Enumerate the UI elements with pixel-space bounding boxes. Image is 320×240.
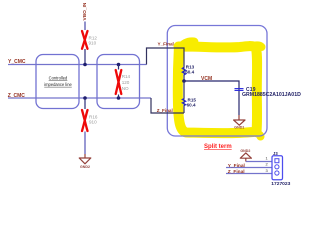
- resistor R13 (zigzag): [182, 67, 185, 75]
- wire stub from VBO_IN down to R12: [84, 22, 86, 31]
- wire Z_CMC horizontal: [8, 97, 151, 99]
- svg-text:J3: J3: [273, 151, 278, 156]
- controlled impedance box 1: [36, 55, 79, 109]
- wire Z_Final to J3 pin3: [226, 173, 272, 175]
- resistor R15 (zigzag): [182, 99, 185, 106]
- R12 value labels: [89, 36, 98, 46]
- junction R14 top: [117, 63, 121, 67]
- wire gnd to J3 pin1: [246, 161, 272, 163]
- wire R15 down to Z branch: [183, 106, 185, 114]
- wire R12 to Y wire: [84, 49, 86, 65]
- junction R14 bottom: [117, 96, 121, 100]
- wire Y branch up/right to R13: [147, 48, 185, 67]
- label: Controlled impedance line: [44, 76, 72, 87]
- svg-text:60.4: 60.4: [187, 102, 196, 107]
- svg-text:GND1: GND1: [234, 126, 244, 130]
- R13 labels: [185, 65, 194, 75]
- R15 labels: [187, 97, 197, 107]
- resistor R16 (red X, DNI): [82, 110, 88, 131]
- ground GND1 (under C19): [234, 120, 245, 125]
- R16 value labels: [89, 114, 98, 124]
- svg-text:3: 3: [265, 168, 268, 173]
- svg-text:GND2: GND2: [240, 149, 250, 153]
- svg-text:VBO_IN: VBO_IN: [82, 2, 88, 20]
- svg-text:Z_Final: Z_Final: [157, 108, 173, 113]
- C19 labels: [242, 87, 301, 98]
- svg-text:1727023: 1727023: [271, 181, 290, 187]
- svg-text:2: 2: [265, 162, 268, 167]
- svg-text:Y_CMC: Y_CMC: [8, 59, 26, 65]
- box 2 (termination block): [97, 55, 140, 109]
- svg-text:GRM1885C2A101JA01D: GRM1885C2A101JA01D: [242, 92, 301, 98]
- wire R16 down to ground: [84, 132, 86, 155]
- pin 2 circle: [275, 165, 279, 169]
- svg-text:120: 120: [122, 80, 130, 85]
- wire VCM junction down to R15: [183, 81, 185, 99]
- svg-text:1: 1: [265, 155, 268, 160]
- svg-text:60.4: 60.4: [185, 70, 194, 75]
- resistor R14 (red X, DNI): [116, 70, 122, 94]
- resistor R12 (red X, DNI): [82, 31, 88, 49]
- highlighter stroke (yellow marker loop): [178, 42, 262, 137]
- pin 3 circle: [275, 171, 279, 175]
- junction VCM: [182, 79, 186, 83]
- wire R13 to VCM junction: [183, 75, 185, 81]
- wire VCM to C19: [184, 81, 239, 115]
- svg-text:impedance line: impedance line: [44, 82, 72, 87]
- svg-text:Y_Final: Y_Final: [228, 163, 245, 169]
- capacitor C19: [235, 89, 244, 91]
- junction on Y wire: [83, 63, 87, 67]
- wire C19 down to ground: [238, 115, 240, 120]
- svg-text:910: 910: [89, 120, 97, 125]
- wire Z branch down/right: [151, 98, 184, 113]
- wire stubs R14: [118, 65, 120, 99]
- svg-text:Z_CMC: Z_CMC: [8, 93, 26, 99]
- R14 value labels: [122, 74, 131, 91]
- pin 1 square: [275, 159, 279, 163]
- junction on Z wire: [83, 96, 87, 100]
- big rounded box (split termination area): [167, 26, 267, 137]
- svg-text:Z_Final: Z_Final: [228, 169, 245, 175]
- svg-text:Split term: Split term: [204, 144, 232, 150]
- ground GND2 (bottom left): [79, 158, 91, 164]
- svg-text:Controlled: Controlled: [49, 76, 68, 81]
- connector J3 body: [272, 156, 283, 180]
- wire Y_Final to J3 pin2: [226, 167, 272, 169]
- svg-text:GND2: GND2: [80, 165, 90, 169]
- svg-text:910: 910: [89, 41, 97, 46]
- wire Z junction down to R16: [84, 98, 86, 109]
- svg-text:NO: NO: [122, 86, 129, 91]
- svg-text:R14: R14: [122, 74, 131, 79]
- wire Y_CMC horizontal: [8, 64, 147, 66]
- svg-text:Y_Final: Y_Final: [158, 42, 174, 47]
